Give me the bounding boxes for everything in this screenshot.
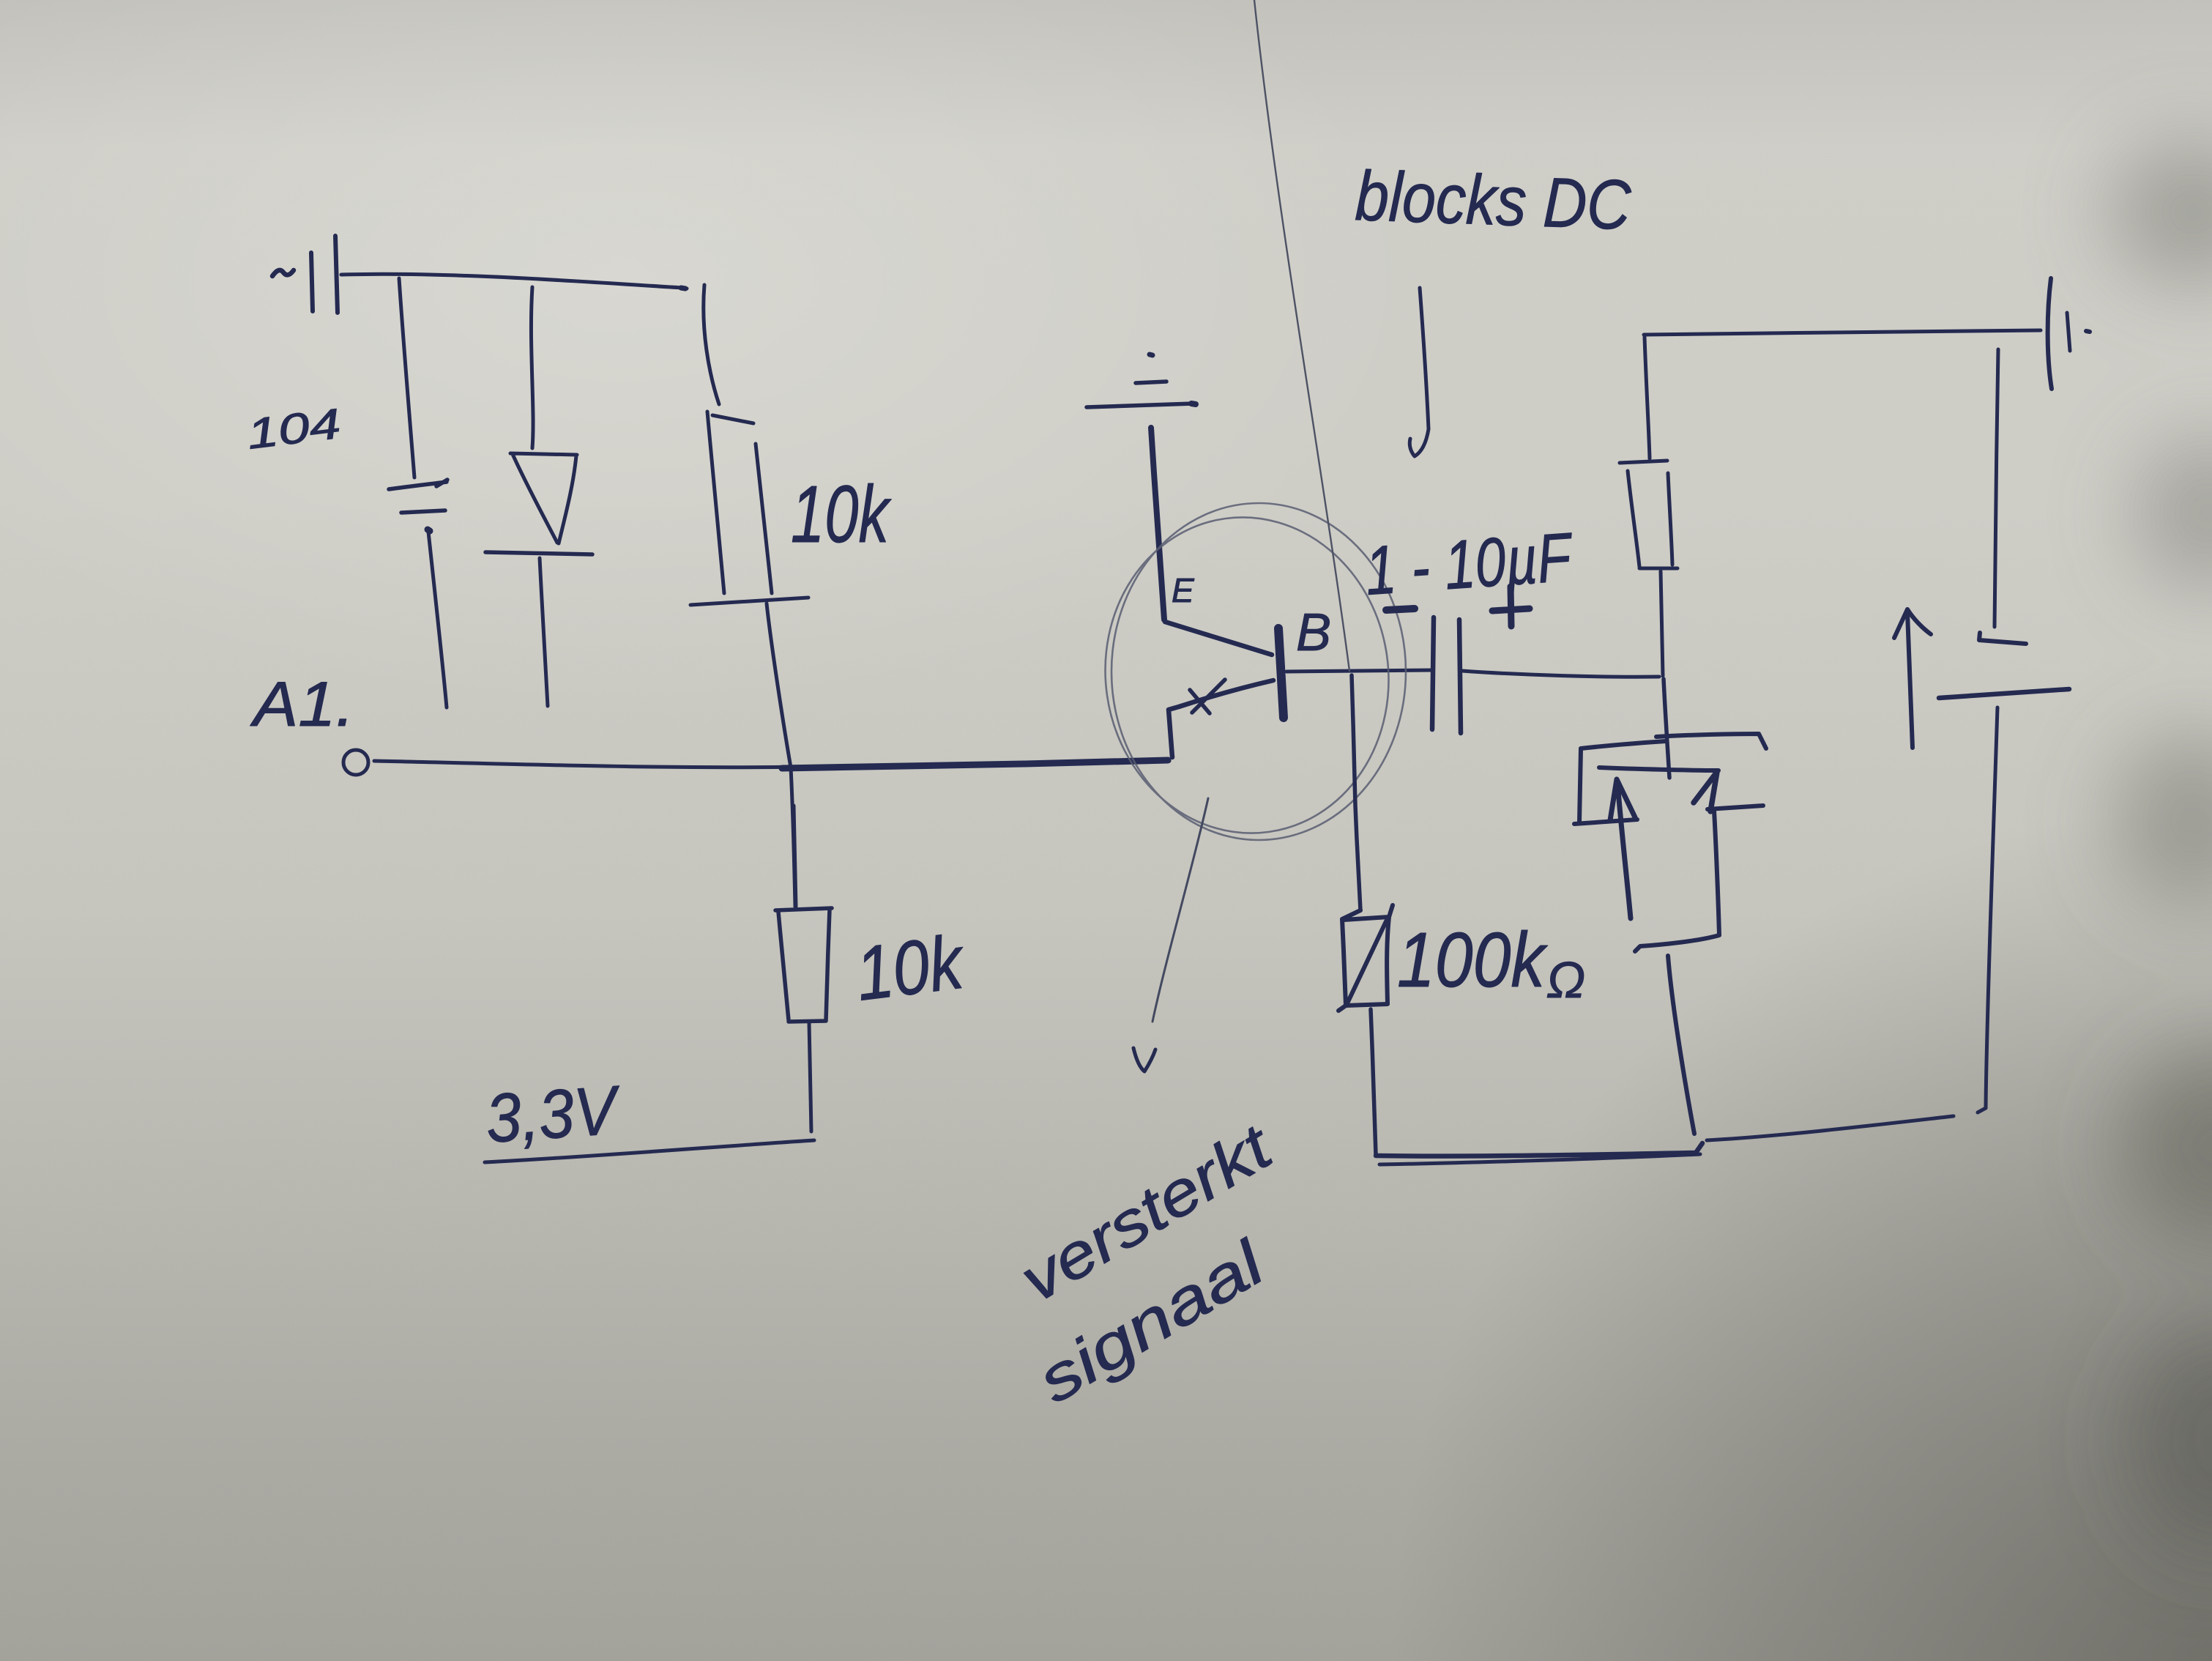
microphone MK1 left lead arrow	[1610, 779, 1635, 918]
wire top rail right	[1644, 330, 2041, 335]
wire top rail from input cap to R1	[341, 274, 687, 289]
resistor R3 top lead	[1645, 337, 1650, 458]
plus polarity mark	[1492, 587, 1530, 626]
capacitor C1 top lead	[399, 278, 414, 478]
resistor R1 bottom lead to R2	[767, 603, 795, 907]
resistor R4 100k body	[1338, 905, 1393, 1011]
svg-text:blocks DC: blocks DC	[1354, 157, 1632, 245]
battery terminal tick top right	[2048, 278, 2052, 389]
svg-text:10k: 10k	[791, 469, 892, 560]
wire junction down to microphone	[1664, 679, 1669, 778]
arrow to versterkt signaal	[1152, 798, 1208, 1022]
label versterkt signaal	[1008, 1110, 1285, 1416]
ground symbol	[1150, 354, 1152, 355]
microphone MK1 body	[1656, 734, 1766, 748]
transistor Q1 envelope circle	[1085, 499, 1409, 852]
svg-text:1 - 10µF: 1 - 10µF	[1363, 518, 1576, 609]
wire emitter to ground	[1151, 428, 1164, 620]
capacitor C0 input coupling plates	[311, 236, 338, 313]
capacitor C1 plates	[389, 480, 447, 513]
svg-text:E: E	[1172, 571, 1195, 609]
svg-text:10k: 10k	[852, 919, 970, 1017]
wire bottom rail left	[1376, 1143, 1702, 1156]
resistor R3 bottom lead	[1661, 571, 1663, 676]
resistor R2 body	[775, 908, 832, 1022]
wire base to coupling cap	[1286, 670, 1432, 672]
wire base junction down to R4	[1352, 675, 1360, 910]
wire cap to junction	[1462, 671, 1659, 677]
svg-text:Ω: Ω	[1546, 951, 1585, 1008]
wire mic output to bottom rail	[1668, 956, 1694, 1134]
resistor R3 body	[1620, 461, 1677, 568]
arrow current direction	[1894, 609, 1931, 748]
capacitor C1 bottom lead	[428, 530, 447, 707]
wire bottom rail right	[1707, 1116, 1954, 1140]
resistor R2 top lead	[794, 806, 796, 907]
wire A1 output line	[374, 761, 1169, 768]
transistor Q1 base bar	[1278, 628, 1284, 718]
resistor R4 bottom lead	[1371, 1009, 1376, 1155]
diode D1 bottom lead	[540, 558, 548, 706]
diode D1 triangle	[510, 453, 577, 543]
wire 3.3V rail underline	[485, 1140, 814, 1162]
microphone MK1 right lead	[1694, 772, 1717, 811]
svg-text:A1.: A1.	[250, 669, 354, 740]
resistor R2 bottom lead	[809, 1022, 811, 1132]
resistor R1 top lead	[704, 285, 719, 404]
crease line from top	[1254, 0, 1349, 671]
input AC source tilde mark	[272, 270, 294, 276]
node A1 terminal	[343, 750, 368, 775]
diode D1 cathode bar	[485, 552, 592, 554]
wire battery top lead	[1995, 349, 1998, 627]
resistor R1 body	[690, 412, 808, 605]
arrow blocks DC pointer	[1410, 288, 1429, 456]
svg-text:100k: 100k	[1397, 917, 1548, 1003]
capacitor C2 coupling plates	[1432, 617, 1461, 733]
svg-text:B: B	[1296, 603, 1331, 662]
wire battery bottom lead	[1978, 707, 1997, 1112]
svg-text:3,3V: 3,3V	[483, 1071, 624, 1157]
battery B1 plates	[1979, 633, 2026, 644]
minus polarity mark	[1386, 609, 1415, 610]
diode D1 top lead	[531, 287, 533, 448]
transistor Q1 collector lead with arrow	[1169, 680, 1273, 757]
